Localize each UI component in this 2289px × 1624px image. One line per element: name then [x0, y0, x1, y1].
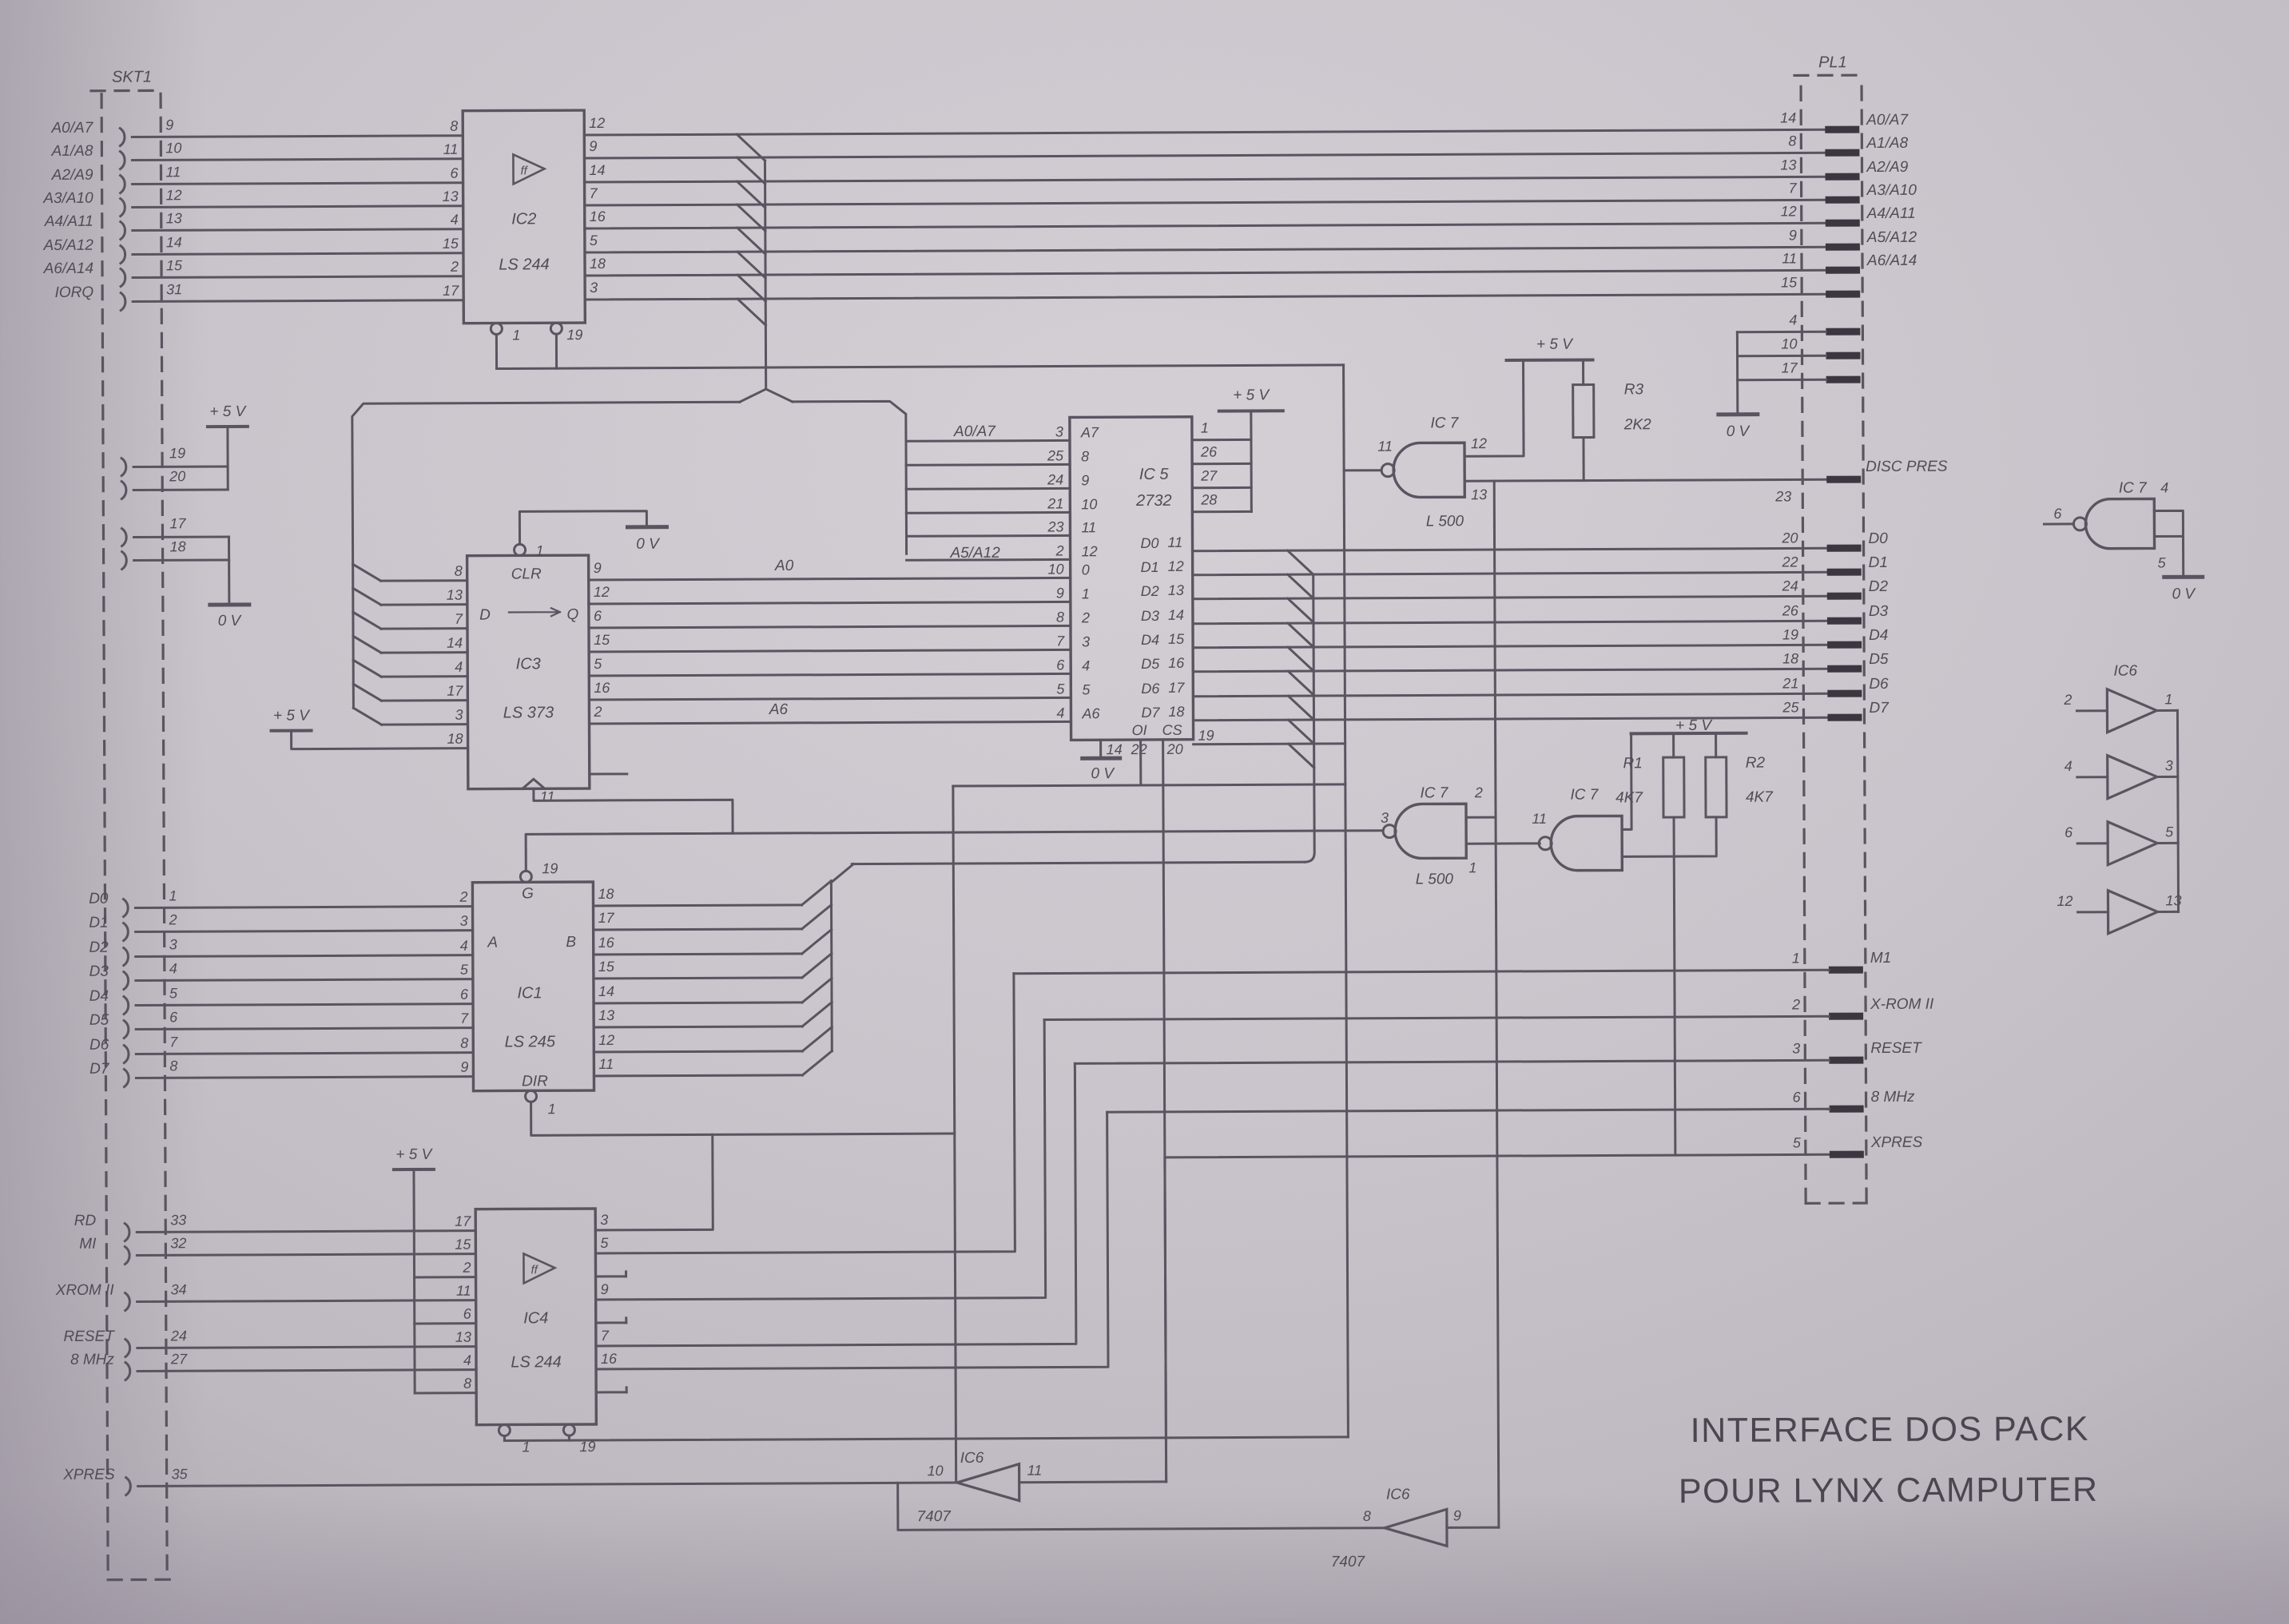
svg-text:A1/A8: A1/A8: [51, 143, 93, 160]
IC2 LS244 buffer: [463, 110, 585, 324]
svg-text:10: 10: [1081, 496, 1097, 512]
svg-text:D1: D1: [1869, 554, 1888, 571]
PL1 pin 21 pad D6: [1827, 690, 1862, 697]
svg-text:3: 3: [1792, 1040, 1800, 1056]
svg-text:23: 23: [1047, 518, 1063, 534]
wire DISC PRES line: [1464, 479, 1826, 481]
svg-text:A0/A7: A0/A7: [1866, 112, 1909, 129]
svg-text:4: 4: [463, 1352, 471, 1368]
svg-text:13: 13: [166, 210, 182, 226]
SKT1 pin 13 wire A4/A11: [121, 222, 125, 240]
SKT1 pin 15 wire A6/A14: [121, 269, 125, 287]
svg-text:14: 14: [589, 162, 605, 178]
svg-text:12: 12: [589, 115, 605, 131]
svg-text:24: 24: [170, 1328, 187, 1344]
IC5 upper address pin wire row 641: [906, 511, 1070, 514]
svg-text:A: A: [487, 935, 498, 951]
ground 0V at IC3 CLR: [627, 525, 666, 529]
svg-text:D5: D5: [1141, 656, 1160, 672]
address bus vertical: [765, 161, 765, 389]
svg-text:18: 18: [598, 886, 614, 902]
svg-text:11: 11: [456, 1283, 471, 1299]
op-amp — NAND IC7a (pins 12,13 -> 11): [1393, 443, 1464, 497]
svg-text:1: 1: [1468, 860, 1476, 876]
PL1 pin 19 pad D4: [1827, 641, 1862, 649]
SKT1 pin 4 wire D3: [124, 972, 129, 990]
svg-text:IC4: IC4: [523, 1309, 548, 1327]
svg-text:12: 12: [594, 584, 610, 600]
svg-text:A6/A14: A6/A14: [43, 260, 93, 277]
+5V stem to IC4 unused inputs: [414, 1169, 415, 1393]
svg-text:9: 9: [1789, 227, 1797, 243]
svg-text:L 500: L 500: [1416, 871, 1454, 887]
svg-text:8: 8: [1788, 133, 1796, 149]
svg-text:+ 5 V: + 5 V: [209, 403, 247, 420]
svg-text:5: 5: [590, 232, 598, 248]
svg-text:10: 10: [165, 140, 181, 156]
svg-text:MI: MI: [79, 1236, 97, 1253]
OI corner vertical to buffer output node: [953, 786, 956, 1481]
svg-text:Q: Q: [566, 606, 578, 623]
svg-text:6: 6: [1793, 1089, 1802, 1105]
svg-text:M1: M1: [1870, 950, 1891, 967]
svg-text:IC 7: IC 7: [1430, 415, 1459, 431]
IC1 B-side bus horizontal: [852, 862, 1305, 864]
svg-text:33: 33: [170, 1212, 186, 1228]
bus left branch to IC3 inputs: [352, 402, 741, 708]
svg-text:1: 1: [1201, 420, 1209, 436]
svg-text:4: 4: [1056, 705, 1064, 721]
svg-text:4: 4: [455, 659, 463, 675]
buffer IC6b 7407 (8<-9): [1385, 1509, 1447, 1546]
svg-text:POUR LYNX CAMPUTER: POUR LYNX CAMPUTER: [1679, 1471, 2099, 1511]
svg-text:IC 7: IC 7: [2119, 480, 2148, 497]
PL1 pin 12 pad: [1826, 220, 1860, 227]
PL1 pin 18 pad D5: [1827, 665, 1862, 673]
svg-text:5: 5: [1082, 681, 1091, 697]
SKT1 pin 31 wire IORQ: [121, 293, 125, 311]
svg-text:IC 7: IC 7: [1570, 787, 1599, 804]
svg-text:17: 17: [447, 683, 463, 699]
svg-text:15: 15: [443, 236, 459, 252]
svg-text:1: 1: [2164, 691, 2172, 707]
svg-text:12: 12: [1781, 203, 1797, 219]
PL1 pin 13 pad: [1826, 173, 1860, 181]
svg-text:0 V: 0 V: [2172, 586, 2197, 602]
wire IC6 spare output 13: [2158, 911, 2179, 913]
buffer IC6 spare 6->5: [2108, 821, 2157, 864]
svg-text:6: 6: [450, 165, 459, 181]
IC2 pin 19 enable: [550, 323, 562, 334]
svg-text:3: 3: [460, 913, 468, 929]
PL1 pin 2 X-ROM II: [1829, 1013, 1863, 1020]
data-bus collector slashes: [1288, 550, 1313, 574]
svg-text:26: 26: [1782, 602, 1799, 618]
+5V bar above R1 R2: [1631, 732, 1747, 736]
svg-text:13: 13: [1168, 582, 1184, 598]
svg-text:11: 11: [1027, 1463, 1043, 1479]
svg-text:14: 14: [447, 635, 463, 651]
svg-text:LS 373: LS 373: [503, 704, 554, 721]
svg-text:7: 7: [460, 1011, 469, 1026]
svg-text:A3/A10: A3/A10: [1866, 182, 1917, 199]
svg-text:7: 7: [455, 611, 463, 627]
svg-text:14: 14: [1107, 741, 1123, 757]
svg-text:15: 15: [594, 632, 610, 648]
svg-text:D: D: [479, 607, 491, 624]
svg-text:A6: A6: [1081, 705, 1100, 721]
svg-text:2K2: 2K2: [1623, 416, 1651, 433]
svg-text:8: 8: [455, 563, 463, 579]
IC5 upper address pin wire row 670: [906, 534, 1070, 538]
svg-text:A6/A14: A6/A14: [1866, 252, 1917, 269]
PL1 pin 14 pad: [1825, 126, 1859, 133]
svg-text:0 V: 0 V: [636, 536, 661, 553]
svg-text:3: 3: [600, 1212, 608, 1228]
svg-text:12: 12: [1082, 543, 1098, 559]
IC2 buffer triangle symbol: [513, 154, 544, 184]
PL1 pin 22 pad D1: [1827, 569, 1862, 576]
svg-text:13: 13: [447, 587, 463, 603]
wire IC1 G to gate2 input: [526, 831, 1383, 872]
svg-text:XPRES: XPRES: [1870, 1134, 1923, 1151]
svg-text:D3: D3: [1141, 608, 1159, 624]
svg-text:IORQ: IORQ: [55, 284, 94, 301]
IC5 upper address pin wire row 551: [906, 439, 1070, 443]
svg-text:IC 7: IC 7: [1420, 784, 1449, 801]
svg-text:9: 9: [165, 117, 173, 133]
svg-text:18: 18: [590, 256, 606, 272]
svg-text:21: 21: [1047, 495, 1063, 511]
svg-text:7: 7: [169, 1034, 178, 1050]
svg-text:A5/A12: A5/A12: [43, 237, 94, 254]
svg-text:18: 18: [447, 731, 463, 747]
wire IC3 pin11 to latch-enable net: [534, 788, 733, 834]
svg-text:A1/A8: A1/A8: [1866, 135, 1908, 152]
+5V above IC5: [1219, 409, 1283, 412]
svg-text:2: 2: [169, 911, 177, 927]
svg-text:13: 13: [443, 189, 459, 204]
svg-text:25: 25: [1782, 699, 1799, 715]
svg-text:3: 3: [455, 707, 463, 723]
svg-text:D6: D6: [1869, 676, 1889, 693]
SKT1 pins 17/18 to 0V: [121, 529, 126, 546]
resistor R1 4K7: [1663, 757, 1684, 817]
svg-text:9: 9: [1081, 472, 1089, 488]
svg-text:4: 4: [1789, 312, 1797, 328]
svg-text:28: 28: [1200, 492, 1217, 508]
wire DIR net: [531, 1100, 955, 1135]
wire IC6 spare input 6: [2077, 842, 2108, 844]
bus fork: [740, 389, 793, 402]
svg-text:6: 6: [169, 1009, 178, 1025]
IC4 buffer triangle symbol: [523, 1253, 554, 1283]
svg-text:A4/A11: A4/A11: [44, 213, 93, 230]
wire buffer IC6a input to CS vertical: [1019, 1480, 1166, 1483]
wire IC4 pin3 to DIR: [595, 1134, 713, 1230]
svg-text:LS 245: LS 245: [505, 1033, 556, 1050]
svg-text:4: 4: [2160, 479, 2168, 495]
svg-text:19: 19: [542, 860, 558, 876]
svg-text:6: 6: [594, 608, 602, 624]
svg-text:CS: CS: [1162, 722, 1182, 738]
svg-text:D7: D7: [89, 1061, 110, 1078]
svg-text:0 V: 0 V: [1091, 765, 1115, 782]
svg-text:8: 8: [450, 118, 458, 134]
svg-text:2: 2: [1081, 609, 1090, 625]
svg-text:12: 12: [1168, 558, 1184, 574]
svg-text:8 MHz: 8 MHz: [70, 1352, 114, 1368]
data-bus collector vertical: [1304, 574, 1315, 862]
svg-text:A0/A7: A0/A7: [953, 423, 996, 440]
svg-text:2732: 2732: [1135, 492, 1172, 510]
svg-text:LS 244: LS 244: [511, 1353, 561, 1371]
svg-text:2: 2: [1791, 996, 1800, 1012]
PL1 pin 15 pad: [1826, 291, 1860, 298]
svg-text:DIR: DIR: [522, 1073, 548, 1090]
svg-text:11: 11: [1782, 250, 1797, 266]
svg-text:3: 3: [2165, 757, 2173, 773]
+5V at IC3 pin 18: [272, 729, 312, 733]
svg-text:0 V: 0 V: [1727, 423, 1751, 440]
svg-text:9: 9: [1453, 1507, 1461, 1523]
svg-text:5: 5: [2165, 824, 2174, 840]
svg-text:14: 14: [598, 983, 614, 999]
svg-text:4: 4: [460, 938, 468, 954]
wire gate3 pin13 to R2: [1622, 817, 1716, 857]
svg-text:32: 32: [170, 1235, 186, 1251]
svg-text:LS 244: LS 244: [499, 256, 549, 273]
svg-text:12: 12: [1471, 435, 1487, 451]
svg-text:6: 6: [460, 987, 469, 1003]
svg-text:8: 8: [169, 1058, 177, 1074]
svg-text:IC3: IC3: [516, 655, 541, 673]
wire IC6 spare input 2: [2076, 709, 2107, 712]
svg-text:4K7: 4K7: [1746, 789, 1774, 806]
+5V symbol left: [208, 425, 248, 428]
svg-text:CLR: CLR: [511, 566, 542, 582]
svg-text:35: 35: [172, 1466, 189, 1482]
svg-text:11: 11: [1532, 811, 1547, 827]
svg-text:15: 15: [166, 257, 183, 273]
svg-text:2: 2: [2063, 692, 2072, 708]
IC1 B-side bus top diagonal: [831, 864, 853, 883]
svg-text:7: 7: [590, 185, 598, 201]
svg-text:6: 6: [1056, 657, 1065, 673]
SKT1 pin 12 wire A3/A10: [121, 199, 125, 216]
svg-text:5: 5: [600, 1235, 609, 1251]
svg-text:A0/A7: A0/A7: [50, 120, 93, 137]
svg-text:1: 1: [169, 887, 177, 903]
svg-text:21: 21: [1782, 675, 1798, 691]
svg-text:16: 16: [1168, 655, 1185, 671]
wire buffer IC6b input from DISC vertical: [1447, 1527, 1499, 1529]
svg-text:D4: D4: [89, 988, 109, 1005]
SKT1 pin 24 wire RESET: [125, 1340, 130, 1357]
svg-text:DISC PRES: DISC PRES: [1866, 459, 1948, 475]
svg-text:+ 5 V: + 5 V: [1233, 387, 1270, 403]
IC3 LS373 latch: [467, 555, 590, 789]
svg-text:D7: D7: [1869, 700, 1890, 717]
svg-text:RESET: RESET: [63, 1328, 115, 1345]
svg-text:D0: D0: [1140, 535, 1158, 551]
SKT1 pin 33 wire RD: [125, 1224, 129, 1241]
svg-text:2: 2: [462, 1260, 471, 1276]
wire gate1 pin12 to +5V: [1464, 360, 1524, 456]
IC3 pin 1 CLR circle: [515, 544, 526, 555]
wire IC6 spare output 3: [2157, 776, 2178, 778]
svg-text:6: 6: [463, 1306, 472, 1322]
wire spare gate input: [2044, 522, 2073, 525]
svg-text:17: 17: [598, 910, 615, 926]
SKT1 pin 32 wire MI: [125, 1247, 129, 1265]
IC5 upper address pin wire row 581: [906, 463, 1070, 467]
PL1 pin 23 DISC PRES pad: [1826, 476, 1861, 483]
PL1 pin 11 pad: [1826, 267, 1860, 274]
svg-text:12: 12: [2057, 893, 2072, 909]
svg-text:D2: D2: [1869, 578, 1889, 595]
svg-text:11: 11: [165, 164, 181, 180]
wire CLR to 0V: [519, 511, 646, 545]
wire IC2 enables to OE net: [495, 335, 498, 369]
svg-text:2: 2: [1474, 784, 1483, 800]
IC5 VCC pins 1,26,27,28 to +5V: [1192, 439, 1251, 441]
OI enable net horizontal: [953, 784, 1345, 786]
svg-text:7: 7: [1789, 180, 1798, 196]
svg-text:D0: D0: [1868, 530, 1888, 547]
svg-text:20: 20: [1781, 530, 1798, 546]
svg-text:A6: A6: [769, 701, 789, 718]
XPRES row to PL1: [1165, 1154, 1831, 1482]
svg-text:11: 11: [598, 1056, 614, 1072]
PL1 pin 20 pad D0: [1827, 545, 1862, 552]
svg-text:+ 5 V: + 5 V: [1675, 717, 1713, 734]
svg-text:9: 9: [594, 560, 602, 576]
svg-text:23: 23: [1774, 488, 1791, 504]
svg-text:9: 9: [460, 1059, 468, 1075]
svg-text:15: 15: [598, 959, 615, 975]
PL1 pin 1 M1: [1829, 967, 1863, 974]
SKT1 pin 8 wire D7: [124, 1070, 129, 1087]
svg-text:17: 17: [1782, 359, 1798, 375]
svg-text:13: 13: [1471, 486, 1487, 502]
IC5 upper address pin wire row 700: [907, 558, 1071, 562]
op-amp — NAND IC7c (pins 12,13 -> 11): [1551, 816, 1622, 870]
svg-text:6: 6: [2064, 824, 2073, 840]
svg-text:G: G: [522, 885, 534, 902]
IC3 input fan diagonals: [353, 564, 381, 581]
svg-text:15: 15: [1781, 274, 1798, 290]
wire IC6 spare input 4: [2077, 776, 2108, 778]
wire gate3 pin12 to +5V: [1622, 733, 1632, 829]
PL1 pin 5 XPRES pad: [1830, 1151, 1864, 1158]
svg-text:7407: 7407: [1331, 1554, 1366, 1570]
OE vertical (IC2/IC4 enables): [1344, 365, 1349, 1437]
svg-text:4K7: 4K7: [1615, 789, 1643, 806]
svg-text:1: 1: [512, 327, 520, 343]
svg-text:D3: D3: [89, 963, 109, 980]
wire IC6 spare output 1: [2156, 709, 2177, 712]
IC4 LS244 buffer: [475, 1209, 596, 1425]
svg-text:20: 20: [1166, 741, 1183, 757]
+5V above IC4: [394, 1168, 434, 1171]
svg-text:5: 5: [594, 656, 602, 672]
svg-text:B: B: [566, 934, 576, 951]
PL1 pin 8 pad: [1825, 149, 1859, 157]
svg-text:6: 6: [2053, 506, 2062, 522]
SKT1 pin 10 wire A1/A8: [120, 152, 125, 169]
wire IC6 spare outputs common vertical: [2177, 710, 2178, 911]
SKT1 pin 27 wire 8 MHz: [125, 1363, 130, 1380]
IC1 pin 19 G circle: [520, 871, 531, 882]
svg-text:A7: A7: [1080, 424, 1099, 440]
svg-text:16: 16: [598, 935, 615, 951]
svg-text:A2/A9: A2/A9: [1866, 159, 1908, 176]
svg-text:17: 17: [455, 1213, 471, 1229]
svg-text:9: 9: [1056, 585, 1064, 601]
ground 0V at PL1: [1719, 412, 1758, 416]
svg-text:1: 1: [1792, 950, 1800, 966]
svg-text:11: 11: [1167, 534, 1182, 550]
SKT1 pin 1 wire D0: [123, 899, 128, 917]
svg-text:D2: D2: [1141, 583, 1159, 599]
wire ground pins to 0V: [1736, 332, 1739, 415]
SKT1 pin 9 wire A0/A7: [120, 129, 125, 146]
svg-text:8 MHz: 8 MHz: [1871, 1089, 1915, 1106]
svg-text:A5/A12: A5/A12: [1866, 229, 1917, 246]
svg-text:IC1: IC1: [517, 984, 542, 1002]
svg-text:D6: D6: [89, 1037, 109, 1054]
svg-text:A0: A0: [774, 558, 794, 574]
svg-text:9: 9: [589, 138, 597, 154]
svg-text:R2: R2: [1746, 755, 1766, 772]
SKT1 pins 19/20 to +5V: [121, 459, 126, 476]
svg-text:5: 5: [1056, 681, 1065, 697]
address bus diagonal taps: [737, 134, 765, 161]
svg-text:5: 5: [1793, 1134, 1802, 1150]
svg-text:22: 22: [1131, 741, 1147, 757]
ground 0V spare gate: [2164, 575, 2203, 579]
svg-text:2: 2: [593, 704, 602, 720]
IC2 pin 1 enable: [491, 324, 502, 335]
svg-text:18: 18: [1782, 650, 1798, 666]
svg-text:D5: D5: [1869, 651, 1889, 668]
svg-text:2: 2: [1055, 542, 1064, 558]
svg-text:OI: OI: [1131, 722, 1146, 738]
op-amp — NAND IC7b (pins 1,2 -> 3): [1395, 804, 1466, 858]
svg-text:25: 25: [1047, 447, 1064, 463]
svg-text:13: 13: [455, 1329, 471, 1345]
svg-text:RESET: RESET: [1870, 1040, 1922, 1057]
PL1 pin 6 8 MHz: [1830, 1106, 1864, 1113]
svg-text:A4/A11: A4/A11: [1866, 205, 1916, 222]
IC1 LS245 transceiver: [472, 882, 594, 1091]
svg-text:14: 14: [1780, 109, 1796, 125]
svg-text:0: 0: [1082, 562, 1090, 578]
svg-text:7407: 7407: [917, 1508, 952, 1525]
SKT1 pin 35 wire XPRES: [126, 1478, 131, 1495]
svg-text:2: 2: [450, 259, 459, 275]
svg-text:5: 5: [460, 962, 469, 978]
svg-text:16: 16: [590, 208, 606, 224]
svg-text:IC 5: IC 5: [1139, 466, 1170, 483]
svg-text:27: 27: [170, 1351, 188, 1367]
svg-text:D7: D7: [1141, 705, 1160, 721]
svg-text:IC6: IC6: [960, 1450, 984, 1467]
svg-text:3: 3: [1055, 423, 1063, 439]
svg-text:14: 14: [166, 234, 182, 250]
SKT1 pin 3 wire D2: [124, 948, 129, 966]
